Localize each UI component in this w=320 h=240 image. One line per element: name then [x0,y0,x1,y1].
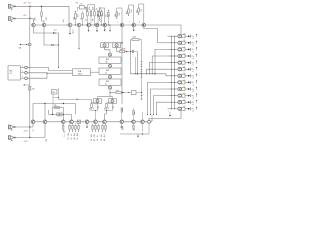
wire row8 out [183,80,188,83]
svg-text:s1: s1 [192,45,194,47]
svg-text:4k7: 4k7 [134,111,136,114]
resistor R29 [133,108,136,120]
ground Q44 [86,124,88,129]
svg-text:s1: s1 [192,104,194,106]
svg-text:BPF: BPF [106,59,109,61]
wire rail H5 [53,107,64,109]
piezo PZ2 [188,40,197,46]
resistor R12 [108,10,111,26]
svg-text:2k: 2k [77,138,79,140]
wire row12 out [183,106,188,109]
svg-text:4k: 4k [104,139,106,141]
wire row5 feed [168,62,178,63]
label link red [122,48,126,50]
wire row8 feed [168,82,178,83]
input jack J3 [9,125,16,131]
component box X1 [52,90,58,108]
transistor Q10 [142,23,146,27]
transistor Q42 [61,120,65,124]
transistor Q45 [85,120,89,124]
wire U2 pin1 [21,66,25,68]
piezo PZ9 [188,87,197,93]
transistor Q32 [178,107,185,110]
resistor R15 bracket [127,5,135,26]
svg-text:50k: 50k [19,48,22,50]
svg-text:s1: s1 [192,91,194,93]
svg-text:10k: 10k [183,40,186,42]
transistor Q48 [120,120,124,124]
svg-text:Pz: Pz [192,36,194,38]
transistor Q4 [77,23,81,27]
junction node B [29,18,30,19]
wire row2 out [183,40,188,43]
wire row2 feed long [158,42,168,44]
svg-text:1k: 1k [102,14,104,16]
wire row4 feed [168,56,178,57]
piezo PZ6 [188,67,197,73]
svg-text:22k: 22k [137,10,139,13]
wire X1 node [53,88,59,100]
diode D1 path Q1 [34,27,59,45]
wire stair2 [27,72,72,74]
svg-text:R3: R3 [76,2,78,4]
transistor Q5 [87,23,91,27]
svg-text:10k: 10k [90,107,92,110]
wire row6 feed [168,69,178,70]
transistor Q7 [103,23,107,27]
resistor R19 on bus [23,84,35,90]
resistor group RG8 [91,124,99,142]
diode D4 [125,51,131,53]
label -12V J3 [24,129,35,132]
wire row9 out [183,86,188,89]
svg-text:10k: 10k [183,34,186,36]
svg-text:1u: 1u [109,14,111,16]
transistor Q21 [178,35,185,38]
svg-text:Pz: Pz [192,89,194,91]
amplifier U3 box [73,69,91,76]
svg-text:4k: 4k [105,83,107,85]
svg-text:C3: C3 [105,15,107,17]
transistor Q23 [178,48,185,51]
ground stub Q6 [96,27,98,32]
svg-text:10k: 10k [183,80,186,82]
svg-text:1k: 1k [97,139,99,141]
wire main left bus [29,19,31,138]
ground stub mid [109,25,111,32]
svg-text:1u: 1u [64,131,66,133]
trimmer TR2 [113,43,121,48]
svg-text:10k: 10k [68,133,70,136]
svg-text:Pz: Pz [192,62,194,64]
svg-text:10k: 10k [91,134,93,137]
wire stair row3 [155,49,168,73]
svg-text:1u: 1u [64,134,66,136]
wire J4 [15,124,45,138]
diode D2 path Q2 [44,27,59,46]
filter F2 box [99,68,121,74]
filter F1 box [99,57,121,63]
svg-text:C6: C6 [141,9,143,11]
svg-text:C2: C2 [86,19,88,21]
svg-text:10: 10 [91,139,93,141]
transistor Q49 [132,120,136,124]
svg-text:10u: 10u [131,9,133,12]
IC U2 box [8,66,21,80]
wire corner J1-chain [66,6,69,25]
wire row10 out [183,93,188,96]
transistor Q46 [94,120,98,124]
svg-text:R9: R9 [100,19,102,21]
svg-text:VR1: VR1 [46,17,48,21]
svg-text:C10: C10 [46,139,48,142]
svg-text:R1: R1 [28,2,30,4]
svg-text:10: 10 [101,139,103,141]
svg-text:10u: 10u [122,127,124,130]
wire link down [135,52,137,74]
svg-text:s1: s1 [192,65,194,67]
transistor Q27 [178,74,185,77]
wire stair row8 [147,82,167,115]
resistor R13 bracket [115,8,123,26]
resistor R21 [116,90,121,93]
piezo PZ11 [188,100,197,106]
switch S1 [77,120,80,123]
wire U2 pin3 [21,76,25,78]
wire drop x33 [32,104,34,121]
transistor Q43 [70,120,74,124]
svg-text:10k: 10k [183,73,186,75]
svg-text:10k: 10k [32,89,35,91]
wire drop x48 [48,110,50,114]
resistor network RN2 [105,97,117,121]
piezo PZ7 [188,73,197,79]
wire row5 out [183,60,188,63]
wire drop x63 [63,108,65,121]
svg-text:1k: 1k [97,135,99,137]
wire bottom chain [33,121,152,123]
wire row4 out [183,53,188,56]
resistor R5 [77,11,83,25]
svg-text:Pz: Pz [192,76,194,78]
svg-text:BPF: BPF [106,81,109,83]
wire rail H2 [49,114,72,115]
wire row7 feed [168,75,178,76]
wire stair base [152,115,153,121]
wire stair row6 [146,69,167,74]
wire row7 out [183,73,188,76]
svg-text:4k: 4k [74,138,76,140]
pad P1 [25,66,30,69]
pad stack-top [109,53,112,57]
capacitor C12 [121,124,125,131]
resistor R23 [54,105,60,109]
resistor R30 [133,124,136,132]
wire drop x45 [44,104,46,121]
svg-text:s1: s1 [192,58,194,60]
wire rail V1 [141,40,142,101]
wire stair row4 [152,56,168,74]
svg-text:10k: 10k [183,100,186,102]
transistor Q31 [178,101,185,104]
wire TR2 to link [117,47,120,52]
wire right bus BUS2 [170,36,172,109]
piezo PZ3 [188,47,197,53]
transistor Q1 [32,23,36,27]
transistor Q8 [120,23,124,27]
svg-text:10k: 10k [183,47,186,49]
wire stair row5 [149,63,168,75]
svg-text:4u7: 4u7 [120,49,123,51]
svg-text:4u7: 4u7 [54,30,57,32]
svg-text:10k: 10k [115,14,117,17]
wire X1 to RN1 [59,98,92,104]
resistor group RG2 [86,5,103,26]
transistor Q3 [68,23,72,27]
transistor Q40 [31,120,35,124]
svg-text:s1: s1 [192,71,194,73]
wire drop x52 [52,108,54,115]
transistor Q25 [178,61,185,64]
piezo PZ4 [188,54,197,60]
svg-text:47k: 47k [94,134,96,137]
svg-text:+: + [168,110,169,112]
junction node A [29,6,30,7]
svg-text:22k: 22k [122,108,124,111]
transistor Q47 [103,120,107,124]
svg-text:4u7: 4u7 [63,19,65,22]
capacitor C11 [57,113,62,116]
svg-text:1k: 1k [71,134,73,136]
svg-text:47k: 47k [113,106,115,109]
plus marks rail V1 [141,62,143,100]
ground Q49b [142,124,143,135]
input jack J1 [9,4,16,10]
wire Q8 down to bottom chain [121,27,123,104]
svg-text:Pz: Pz [192,95,194,97]
svg-text:10k: 10k [183,106,186,108]
component R3 box [76,2,87,12]
pad P3 [25,77,30,80]
resistor R28 [121,108,124,120]
stub Q4 [78,27,80,50]
wire stair row11 [156,102,167,115]
wire J3 [15,124,33,127]
component X2 [168,110,171,116]
transistor Q24 [178,54,185,57]
wire row6 out [183,67,188,70]
wire row10 feed [168,95,178,96]
svg-text:1u: 1u [93,107,95,109]
svg-text:10k: 10k [183,93,186,95]
label +9V net J2 [23,15,36,21]
wire stack-bot link [109,92,116,93]
svg-text:47k: 47k [89,7,91,10]
wire Q49 up [142,112,144,120]
wire rail H4 top [33,103,76,104]
wire row1 out [183,34,188,37]
pad stack-m2 [109,74,112,79]
wire drop x71 [71,114,73,120]
potentiometer VR2 [19,43,32,49]
wire split bottom [98,93,113,97]
resistor network RN1 [90,97,102,121]
ground stub Q7 [104,27,106,32]
svg-text:Pz: Pz [192,109,194,111]
svg-text:R8: R8 [93,19,95,21]
transistor Q50 [141,120,145,124]
wire row2 feed [168,42,178,43]
filter F3 box [99,79,121,85]
resistor R4 [74,11,77,26]
transistor Q29 [178,87,185,90]
transistor Q28 [178,81,185,84]
ground H3 [137,134,139,137]
wire right bus BUS3 [173,36,175,109]
svg-text:1k: 1k [96,8,98,10]
piezo PZ10 [188,93,197,99]
transistor Q9 [132,23,136,27]
wire U3 out [91,71,100,73]
label -12V J4 [24,139,49,143]
svg-text:C4: C4 [119,13,121,15]
svg-text:47k: 47k [98,106,100,109]
capacitor C7 [130,50,137,53]
wire chain return [149,111,182,121]
wire stair row10 [153,96,167,115]
svg-text:10k: 10k [183,60,186,62]
svg-text:250: 250 [105,61,108,63]
svg-text:2822: 2822 [78,74,82,76]
svg-text:s1: s1 [192,111,194,113]
wire TR1 to stack [105,47,111,53]
stub Q10 to row2 feed [144,27,158,43]
svg-text:10k: 10k [101,134,103,137]
svg-text:1k: 1k [71,138,73,140]
wire chain to right bank row1 [180,25,182,34]
wire bus A-B [29,6,31,18]
wire row3 feed [168,49,178,50]
piezo PZ5 [188,60,197,66]
wire stair3 [27,73,47,79]
svg-text:Pz: Pz [192,49,194,51]
wire bottom rail H3 [120,123,149,134]
wire split top [105,42,123,43]
svg-text:1: 1 [129,21,130,23]
wire emitter join down [58,45,59,68]
svg-text:Pz: Pz [192,69,194,71]
resistor R20 [120,49,125,52]
wire stair row9 [150,89,167,115]
svg-text:10k: 10k [183,67,186,69]
pad P2 [25,72,30,75]
pad bottom-right [148,120,151,123]
resistor R17 bracket [137,4,145,26]
wire row1 feed [168,36,178,37]
resistor R31 below [63,124,67,137]
resistor R2 [41,6,48,24]
wire rail H1 [131,40,167,75]
resistor group RG7 [68,124,79,140]
svg-text:Pz: Pz [192,102,194,104]
ground stub Q9 [133,27,135,32]
svg-text:Pz: Pz [192,43,194,45]
pad stack-m1 [109,63,112,68]
svg-text:10k: 10k [98,14,100,17]
wire row11 out [183,100,188,103]
label TR1 [54,30,57,32]
svg-text:4u7: 4u7 [116,90,119,92]
svg-text:C2: C2 [80,4,82,6]
wire row11 feed [168,102,178,103]
piezo PZ12 [188,106,197,112]
transistor Q41 [43,120,47,124]
transistor Q26 [178,68,185,71]
label net 4u7 [63,19,65,22]
svg-text:1: 1 [100,21,101,23]
input jack J4 [9,135,16,141]
resistor R10 bracket Q7 [98,8,108,26]
svg-text:10k: 10k [74,17,76,20]
svg-text:100k: 100k [133,36,137,38]
svg-text:10k: 10k [86,7,88,10]
ground stub Q3 [69,27,73,35]
svg-text:1u: 1u [108,107,110,109]
junction bus-J4 [29,137,30,138]
svg-text:BPF: BPF [106,70,109,72]
svg-text:s1: s1 [192,78,194,80]
wire row7 feed [166,74,168,76]
ground stub Q5 [88,27,90,32]
svg-text:1k: 1k [105,72,107,74]
junction bus-J3 [29,126,30,127]
trimmer TR1 [101,43,109,48]
transistor Q22 [178,41,185,44]
diode D5 [121,92,126,94]
svg-text:47k: 47k [127,11,129,14]
transistor Q6 [95,23,99,27]
resistor R22 [131,36,142,40]
svg-text:Pz: Pz [192,56,194,58]
svg-text:s1: s1 [192,51,194,53]
svg-text:1k: 1k [81,18,83,20]
wire stair1 [27,67,72,70]
svg-text:s1: s1 [192,38,194,40]
piezo PZ1 [188,34,197,40]
transistor Q30 [178,94,185,97]
wire row9 feed [168,89,178,90]
svg-text:s1: s1 [192,98,194,100]
wire U2 pin2 [21,71,25,73]
svg-text:Pz: Pz [192,82,194,84]
svg-text:10k: 10k [183,86,186,88]
svg-text:10k: 10k [183,53,186,55]
wire drop x75 [75,104,77,115]
svg-text:1k: 1k [134,129,136,131]
pad stack-bot [109,85,112,92]
wire row12 feed [168,108,178,109]
piezo PZ8 [188,80,197,86]
wire J1 to corner [15,5,69,7]
wire J2 to chain [15,19,33,24]
wire top chain [32,24,181,26]
input jack J2 [9,16,16,22]
label +9V net J1 [23,2,31,4]
component X3 [126,91,142,95]
svg-text:10: 10 [68,137,70,139]
svg-text:s1: s1 [192,84,194,86]
svg-text:C9: C9 [33,129,35,131]
